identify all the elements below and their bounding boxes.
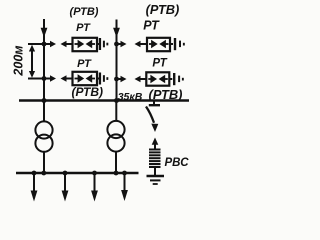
node: line1 row2 junction	[42, 76, 47, 81]
transformer T2	[107, 121, 124, 152]
spark-over arrow (up) toward PBC arrester	[152, 138, 159, 149]
node: bus / line1	[42, 98, 47, 103]
dimension 200m extension line bottom (wire)	[28, 78, 44, 80]
incoming line 2 (wire)	[113, 20, 120, 101]
node: lower bus / T1	[41, 171, 46, 176]
svg-text:(РТВ): (РТВ)	[149, 87, 183, 102]
svg-text:(РТВ): (РТВ)	[70, 6, 99, 18]
node: feeder 1 junction	[32, 171, 37, 176]
transformer T1 lead upper (wire)	[43, 101, 45, 122]
dimension 200m extension line top (wire)	[28, 43, 44, 45]
tubular arrester RT unit 1 (line1, row1)	[44, 38, 108, 51]
PBC arrester lead (wire)	[154, 168, 156, 175]
surge discharge arrow (down)	[146, 107, 158, 133]
valve arrester PBC (stack)	[149, 149, 161, 169]
node: line1 row1 junction	[42, 42, 47, 47]
node: line2 row2 junction	[114, 77, 119, 82]
tubular arrester RT unit 2 (line2, row1)	[117, 38, 185, 51]
tubular arrester RT unit 4 (line2, row2)	[117, 72, 184, 85]
svg-text:(РТВ): (РТВ)	[146, 2, 180, 17]
svg-text:РТ: РТ	[76, 22, 91, 34]
outgoing feeder 4 (wire+arrow)	[121, 173, 128, 201]
node: feeder 2 junction	[63, 171, 68, 176]
svg-text:200м: 200м	[12, 45, 26, 76]
svg-text:РТ: РТ	[143, 19, 160, 33]
tubular arrester RT unit 3 (line1, row2)	[44, 72, 108, 85]
incoming line 1 (wire)	[41, 19, 48, 100]
node: feeder 3 junction	[92, 171, 97, 176]
svg-text:РТ: РТ	[77, 58, 92, 70]
spark gap electrode stub on bus	[149, 101, 160, 106]
dimension 200m double arrow	[29, 45, 35, 78]
node: feeder 4 junction	[122, 171, 127, 176]
transformer T2 lead lower (wire)	[115, 152, 117, 173]
svg-text:35кВ: 35кВ	[118, 91, 143, 103]
outgoing feeder 1 (wire+arrow)	[31, 173, 38, 202]
transformer T2 lead upper (wire)	[115, 101, 117, 121]
main 35kV bus (wire)	[19, 99, 189, 102]
svg-text:(РТВ): (РТВ)	[72, 85, 104, 99]
outgoing feeder 2 (wire+arrow)	[62, 173, 69, 202]
ground symbol	[147, 176, 165, 184]
node: lower bus / T2	[114, 171, 119, 176]
outgoing feeder 3 (wire+arrow)	[91, 173, 98, 202]
svg-text:РВС: РВС	[165, 157, 190, 169]
transformer T1 lead lower (wire)	[43, 152, 45, 173]
svg-text:РТ: РТ	[152, 58, 167, 70]
lower distribution bus (wire)	[16, 172, 139, 174]
node: line2 row1 junction	[114, 42, 119, 47]
node: bus / line2	[114, 98, 119, 103]
transformer T1	[35, 121, 52, 151]
